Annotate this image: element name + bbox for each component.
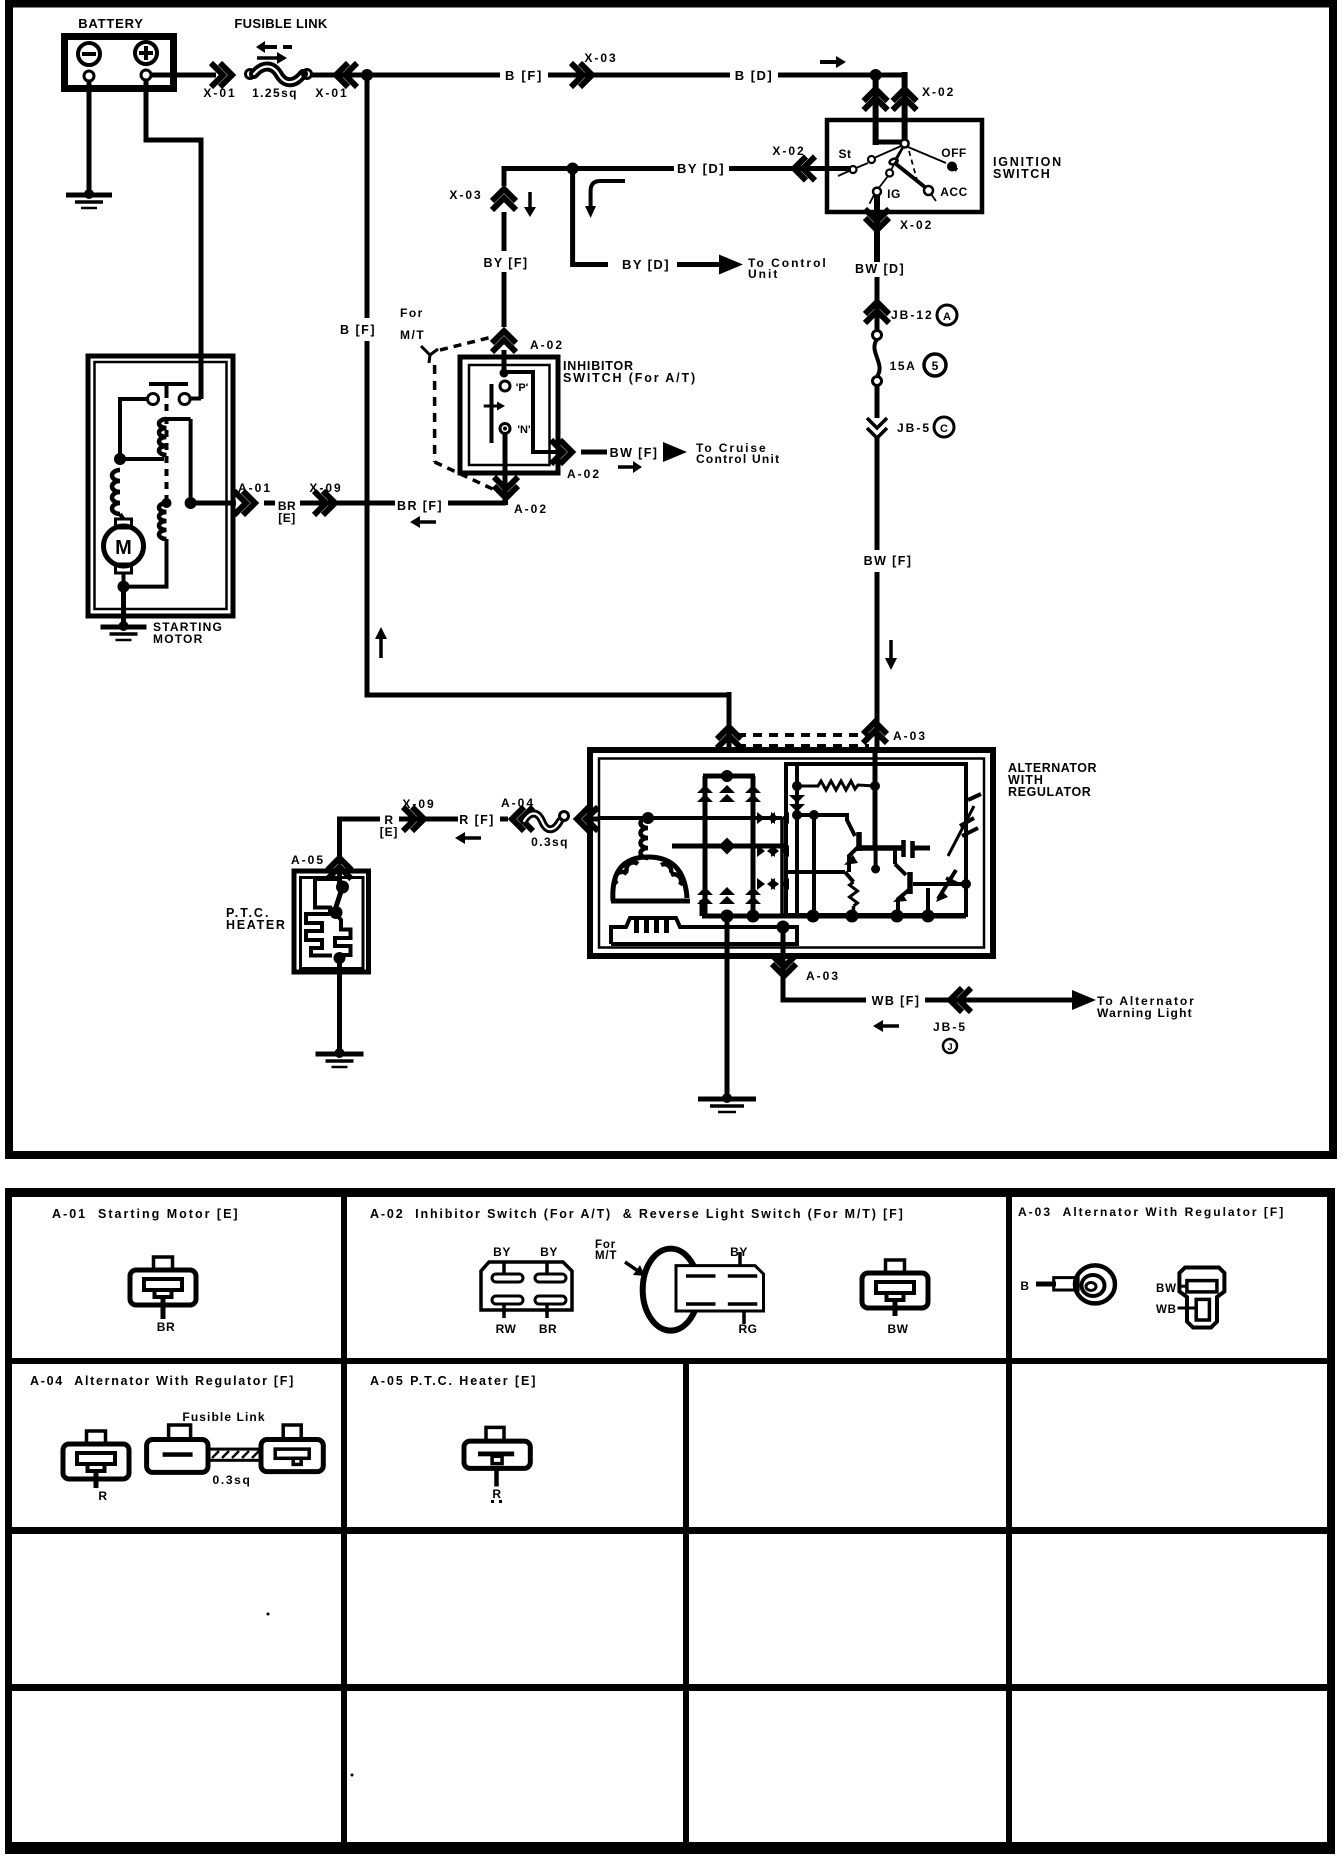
trio diode row3 — [757, 878, 765, 890]
dashed MT line top — [440, 337, 492, 350]
direction arrow down BW — [889, 640, 893, 658]
svg-text:A-03: A-03 — [893, 729, 927, 743]
inhibitor switch SW2 box — [460, 357, 558, 473]
svg-text:Control Unit: Control Unit — [696, 452, 780, 466]
rectifier vertical 1 — [703, 776, 708, 916]
regulator resistor R2 — [850, 882, 858, 906]
svg-text:B: B — [1020, 1279, 1029, 1293]
svg-text:B [F]: B [F] — [340, 323, 376, 337]
svg-text:BW: BW — [888, 1322, 909, 1336]
icon reverse switch oval — [643, 1249, 699, 1331]
svg-text:A-02: A-02 — [514, 502, 548, 516]
svg-text:BW [F]: BW [F] — [610, 446, 659, 460]
ignition switch SW1 box — [827, 120, 982, 212]
svg-text:C: C — [940, 423, 948, 435]
connector A-03 chevron right — [863, 722, 887, 734]
svg-text:BY [D]: BY [D] — [622, 257, 670, 272]
zener ZD1 — [948, 806, 974, 856]
battery plus terminal — [135, 42, 157, 64]
svg-text:M: M — [115, 537, 132, 559]
wire ptc to ground — [337, 958, 342, 1052]
node junction BY — [567, 163, 579, 175]
wire BR 1 — [264, 501, 275, 506]
ignition switch rotor pivot — [901, 140, 909, 148]
svg-text:M/T: M/T — [595, 1250, 617, 1262]
connector X-03 chevron top — [580, 63, 592, 87]
icon connector A-03 2pin — [1179, 1268, 1224, 1328]
node stator top — [642, 812, 654, 824]
wire into ptc — [337, 871, 342, 884]
svg-text:WB [F]: WB [F] — [872, 994, 921, 1008]
regulator diode pair — [789, 795, 805, 803]
node bus 6 — [922, 910, 935, 923]
wire into ignition left — [873, 72, 879, 145]
svg-text:Warning Light: Warning Light — [1097, 1006, 1193, 1020]
wire top right — [778, 73, 907, 78]
wire motor to node — [122, 573, 126, 587]
fusible link direction arrows — [265, 45, 277, 49]
battery minus terminal — [78, 43, 100, 65]
svg-text:BY: BY — [493, 1245, 511, 1259]
inhibitor node — [500, 369, 509, 378]
stator feed line — [599, 816, 782, 820]
connector A-04 chevron 2 — [577, 807, 589, 831]
wire BW[F] upper — [875, 438, 880, 550]
svg-text:A-03: A-03 — [806, 969, 840, 983]
svg-text:A-02: A-02 — [530, 338, 564, 352]
svg-text:JB-5: JB-5 — [897, 421, 931, 435]
wire R into alternator — [588, 817, 599, 822]
transistor Q1 — [847, 813, 855, 836]
connector JB-5 chevron wb — [950, 988, 962, 1012]
trio vertical — [780, 818, 784, 916]
dashed MT fork — [421, 346, 438, 363]
wire BW[F] lower — [875, 572, 880, 750]
wire B into alternator — [727, 692, 732, 752]
wire B[F] vertical upper — [365, 78, 370, 318]
rectifier diode D2 — [719, 785, 735, 793]
ignition contact line to St — [874, 146, 901, 158]
ignition contact St2 — [850, 166, 857, 173]
fuse circle 5 — [924, 354, 946, 376]
svg-text:REGULATOR: REGULATOR — [1008, 785, 1091, 799]
icon connector A-04 b — [283, 1425, 301, 1440]
svg-text:SWITCH: SWITCH — [993, 167, 1051, 181]
connector JB-12 chevron — [865, 302, 889, 314]
icon fuse link A-04 — [169, 1425, 191, 1440]
ptc element top loop — [315, 879, 340, 914]
brush comb — [611, 918, 797, 944]
wire BR 2 — [300, 501, 395, 506]
svg-text:A-01: A-01 — [238, 481, 272, 495]
wire BW fuse down — [875, 385, 880, 418]
svg-text:A-05: A-05 — [291, 853, 325, 867]
wire WB 2 — [925, 998, 1072, 1003]
node bridge top — [721, 770, 733, 782]
wire WB[F] — [783, 998, 866, 1000]
alternator A1 box — [590, 750, 993, 956]
svg-text:X-01: X-01 — [203, 86, 236, 100]
wire R 2 — [399, 817, 458, 822]
svg-text:[E]: [E] — [278, 511, 296, 525]
icon connector A-02 4pin — [481, 1262, 572, 1310]
field line — [672, 844, 786, 849]
wire A-03 exit — [781, 927, 786, 1000]
ignition line to OFF — [908, 147, 946, 163]
svg-text:B [D]: B [D] — [735, 68, 774, 83]
inhibitor P contact — [500, 381, 510, 391]
wire B to ground — [725, 916, 730, 1097]
junction block circle A — [937, 305, 957, 325]
svg-text:A-01 Starting Motor [E]: A-01 Starting Motor [E] — [52, 1207, 240, 1221]
ptc node bottom — [334, 952, 346, 964]
ring terminal — [1036, 1282, 1056, 1287]
wire top mid — [548, 73, 730, 78]
connector X-01 left chevron — [220, 63, 232, 87]
svg-text:X-02: X-02 — [772, 144, 805, 158]
svg-text:BW [D]: BW [D] — [855, 262, 905, 276]
svg-text:ACC: ACC — [940, 185, 968, 199]
regulator right link — [934, 882, 966, 886]
connector A-03 chevron left — [717, 727, 741, 739]
starting motor M1 box — [88, 356, 233, 616]
wire BW[F] cruise — [581, 450, 607, 455]
node a01 — [185, 497, 197, 509]
svg-text:A: A — [943, 311, 951, 323]
icon reverse switch body — [676, 1266, 764, 1311]
solenoid contact left — [148, 394, 159, 405]
starting motor field coil — [112, 470, 120, 514]
wire R corner — [340, 819, 381, 864]
svg-text:FUSIBLE LINK: FUSIBLE LINK — [234, 16, 327, 31]
node junction battery feed — [361, 69, 373, 81]
regulator left link — [788, 870, 845, 874]
svg-text:X-03: X-03 — [449, 188, 482, 202]
wire BW into regulator — [873, 752, 878, 848]
connector A-02 chevron up — [492, 331, 516, 343]
node bus 3 — [807, 910, 820, 923]
svg-text:IG: IG — [887, 187, 901, 201]
connector X-02 chevron left — [794, 157, 806, 181]
rectifier diode D1 — [697, 785, 713, 793]
regulator right vert — [926, 888, 930, 916]
inhibitor N contact — [500, 424, 510, 434]
transistor Q1 bar — [861, 845, 902, 851]
inhibitor mover — [490, 384, 494, 443]
svg-text:BY: BY — [540, 1245, 558, 1259]
stator coil vertical — [641, 818, 649, 858]
ignition line to IG — [891, 148, 903, 170]
svg-text:MOTOR: MOTOR — [153, 632, 203, 646]
regulator resistor R1 — [797, 781, 875, 790]
connector X-09 chevron br — [323, 491, 335, 515]
wire BY[D] cu — [677, 262, 720, 267]
svg-text:A-05 P.T.C. Heater [E]: A-05 P.T.C. Heater [E] — [370, 1374, 537, 1388]
node reg r1 — [792, 781, 802, 791]
svg-text:X-09: X-09 — [402, 797, 435, 811]
wire BR 3 — [448, 501, 506, 506]
solenoid pull-in coil — [159, 419, 167, 455]
ignition switch bridge — [876, 140, 905, 145]
connector X-02 chevrons up — [864, 89, 888, 101]
svg-text:A-02: A-02 — [567, 467, 601, 481]
svg-text:Fusible Link: Fusible Link — [182, 1410, 265, 1424]
node solenoid left — [114, 453, 126, 465]
node bus 2 — [747, 910, 760, 923]
svg-text:RG: RG — [739, 1322, 758, 1336]
dashed MT line diag — [435, 462, 497, 491]
zener ZD2 arrow — [938, 870, 956, 899]
svg-text:0.3sq: 0.3sq — [213, 1473, 252, 1487]
ground G1 battery — [84, 189, 94, 199]
svg-text:'N': 'N' — [517, 424, 531, 436]
regulator vert B — [812, 815, 816, 916]
ignition ACC bar — [896, 164, 926, 188]
wire contact left down — [120, 399, 148, 456]
wire motor ground — [121, 587, 126, 624]
svg-text:R [F]: R [F] — [459, 813, 494, 827]
svg-text:X-02: X-02 — [900, 218, 933, 232]
wire BY[F] 2 — [502, 272, 507, 327]
connector A-02 chevron down — [494, 486, 518, 498]
motor brush bottom — [116, 564, 132, 573]
svg-text:A-04: A-04 — [501, 796, 535, 810]
svg-text:M/T: M/T — [400, 328, 425, 342]
arrow to alt warning — [1072, 990, 1096, 1010]
svg-text:J: J — [947, 1042, 952, 1052]
svg-text:BR: BR — [157, 1320, 176, 1334]
wire ignition IG down — [874, 195, 880, 262]
svg-text:BR: BR — [539, 1322, 557, 1336]
node bus 5 — [891, 910, 904, 923]
ground G3 center — [722, 1093, 732, 1103]
capacitor C1 — [901, 840, 906, 857]
connector X-03 chevron up — [492, 189, 516, 201]
svg-text:RW: RW — [496, 1322, 517, 1336]
rectifier diode D6 — [745, 887, 761, 895]
svg-text:R: R — [98, 1489, 107, 1503]
wire BY[F] corner — [502, 166, 507, 186]
wire B[F] top — [311, 73, 500, 78]
connector X-01 right chevron — [336, 63, 348, 87]
motor brush top — [116, 519, 132, 528]
wire node to axis — [120, 457, 164, 461]
svg-text:JB-12: JB-12 — [891, 308, 934, 322]
svg-text:BY [D]: BY [D] — [677, 161, 725, 176]
stray dot row3 — [267, 1613, 270, 1616]
direction arrow down X03 — [528, 192, 532, 207]
svg-text:BW [F]: BW [F] — [864, 554, 913, 568]
svg-text:[E]: [E] — [380, 825, 398, 839]
direction arrow left wb — [883, 1024, 899, 1028]
direction arrow left r — [465, 836, 481, 840]
dashed link pair — [737, 733, 869, 737]
svg-text:HEATER: HEATER — [226, 918, 287, 932]
svg-text:15A: 15A — [890, 359, 917, 373]
stator mound — [613, 857, 687, 901]
svg-text:BY: BY — [730, 1245, 748, 1259]
table grid — [5, 1188, 1335, 1197]
page frame — [9, 4, 1333, 1156]
wire into inhibitor — [502, 350, 507, 372]
rectifier diode D5 — [719, 887, 735, 895]
svg-text:B [F]: B [F] — [505, 68, 543, 83]
ptc heater H1 box — [294, 871, 369, 972]
fuse F-5 15A — [873, 331, 882, 340]
wire A-01 out — [191, 501, 236, 506]
regulator box — [786, 764, 966, 915]
wire R 3 — [500, 817, 508, 822]
solenoid plunger bar — [149, 382, 188, 386]
arrow to cruise — [663, 442, 687, 462]
inhibitor inner path — [506, 372, 560, 452]
fusible link FL2 — [524, 814, 560, 830]
emitter drop — [874, 848, 878, 871]
svg-text:X-02: X-02 — [922, 85, 955, 99]
wire battery plus right — [151, 73, 216, 78]
direction arrow left br — [420, 520, 436, 524]
direction arrow up B — [379, 639, 383, 658]
ignition dashed rotor line — [909, 151, 917, 180]
wire BY[F] — [502, 212, 507, 251]
junction block circle J — [943, 1039, 957, 1053]
svg-text:R: R — [492, 1487, 501, 1501]
connector A-01 chevron — [243, 491, 255, 515]
ignition contact IG — [873, 188, 881, 196]
icon connector A-05 — [486, 1427, 504, 1441]
wire BW[D] — [875, 277, 880, 331]
svg-text:A-02 Inhibitor Switch (For A/: A-02 Inhibitor Switch (For A/T) & Revers… — [370, 1207, 905, 1221]
svg-text:St: St — [839, 147, 852, 161]
connector X-02 chevron down — [865, 218, 889, 230]
wire B[F] vertical lower — [367, 341, 729, 695]
wire inhibitor out BW — [558, 450, 563, 455]
icon connector BW — [886, 1260, 905, 1273]
wire into ignition right — [902, 72, 908, 146]
wire battery minus to ground — [87, 81, 92, 194]
motor M rotor — [104, 526, 144, 566]
svg-text:X-03: X-03 — [584, 51, 617, 65]
direction arrow right top — [820, 60, 836, 64]
svg-text:0.3sq: 0.3sq — [531, 835, 569, 849]
connector JB-5 chevron v — [867, 418, 887, 428]
transistor Q2 — [893, 848, 897, 864]
wire inhibitor N down — [503, 433, 508, 505]
battery B1 — [65, 37, 174, 89]
node junction ignition feed — [870, 69, 882, 81]
node bus 4 — [846, 910, 859, 923]
trio diode row2 — [757, 845, 765, 857]
dashed MT line vert — [433, 365, 437, 462]
direction arrow right a02 — [618, 465, 633, 469]
ptc element right comb — [335, 916, 351, 955]
stray dot row4 — [351, 1774, 354, 1777]
svg-text:Unit: Unit — [748, 267, 779, 281]
connector A-04 chevron — [512, 807, 524, 831]
svg-text:BW: BW — [1156, 1283, 1177, 1295]
arrow to control unit — [719, 255, 743, 275]
svg-text:For: For — [400, 306, 424, 320]
node comb — [777, 921, 790, 934]
hook arrow — [591, 181, 625, 206]
svg-text:BY [F]: BY [F] — [484, 256, 529, 270]
svg-text:1.25sq: 1.25sq — [252, 86, 298, 100]
svg-text:X-09: X-09 — [309, 481, 342, 495]
svg-text:X-01: X-01 — [315, 86, 348, 100]
svg-text:JB-5: JB-5 — [933, 1020, 967, 1034]
svg-text:5: 5 — [932, 359, 939, 373]
connector A-02 chevron out — [560, 440, 572, 464]
regulator bottom bus — [702, 914, 966, 919]
node bus 1 — [721, 910, 734, 923]
node motor bottom — [118, 581, 130, 593]
rectifier vertical 3 — [751, 776, 756, 916]
icon connector A-04 a — [87, 1431, 106, 1444]
node field mid — [719, 838, 736, 855]
connector A-05 chevron — [328, 858, 352, 870]
fusible link FL1 — [246, 70, 255, 79]
solenoid contact right — [179, 394, 190, 405]
wire coil to motor — [120, 514, 124, 519]
ground G2 motor — [119, 621, 129, 631]
ptc contact — [336, 881, 349, 894]
icon hatched cable — [208, 1449, 261, 1460]
connector X-09 chevron r — [412, 807, 424, 831]
svg-text:BR [F]: BR [F] — [397, 499, 443, 513]
svg-text:A-04 Alternator With Regulato: A-04 Alternator With Regulator [F] — [30, 1374, 295, 1388]
arrow for mt — [625, 1262, 638, 1271]
regulator vert A — [795, 764, 799, 916]
wire BY[D] St feed — [504, 166, 674, 171]
rectifier diode D4 — [697, 887, 713, 895]
ignition contact mid ellipse — [889, 158, 899, 166]
junction block circle C — [934, 417, 954, 437]
connector A-03 chevron down — [772, 964, 796, 976]
regulator cross link — [797, 813, 847, 817]
svg-text:BATTERY: BATTERY — [78, 16, 144, 31]
solenoid dashed axis — [165, 391, 169, 500]
trio diode row1 — [757, 812, 765, 824]
ptc element left comb — [306, 914, 332, 956]
rectifier diode D3 — [745, 785, 761, 793]
wire battery plus down branch — [146, 80, 201, 360]
svg-text:WB: WB — [1156, 1304, 1177, 1316]
svg-text:SWITCH (For A/T): SWITCH (For A/T) — [563, 371, 697, 385]
icon connector A-01 — [154, 1257, 173, 1270]
svg-text:'P': 'P' — [516, 382, 529, 394]
rectifier top bus — [703, 774, 755, 779]
ground G4 ptc — [335, 1048, 345, 1058]
wire batt to solenoid — [199, 358, 204, 399]
svg-text:A-03 Alternator With Regulato: A-03 Alternator With Regulator [F] — [1018, 1205, 1285, 1219]
wire BY[D] drop — [573, 166, 608, 265]
svg-text:OFF: OFF — [941, 146, 967, 160]
solenoid hold coil — [162, 498, 172, 508]
